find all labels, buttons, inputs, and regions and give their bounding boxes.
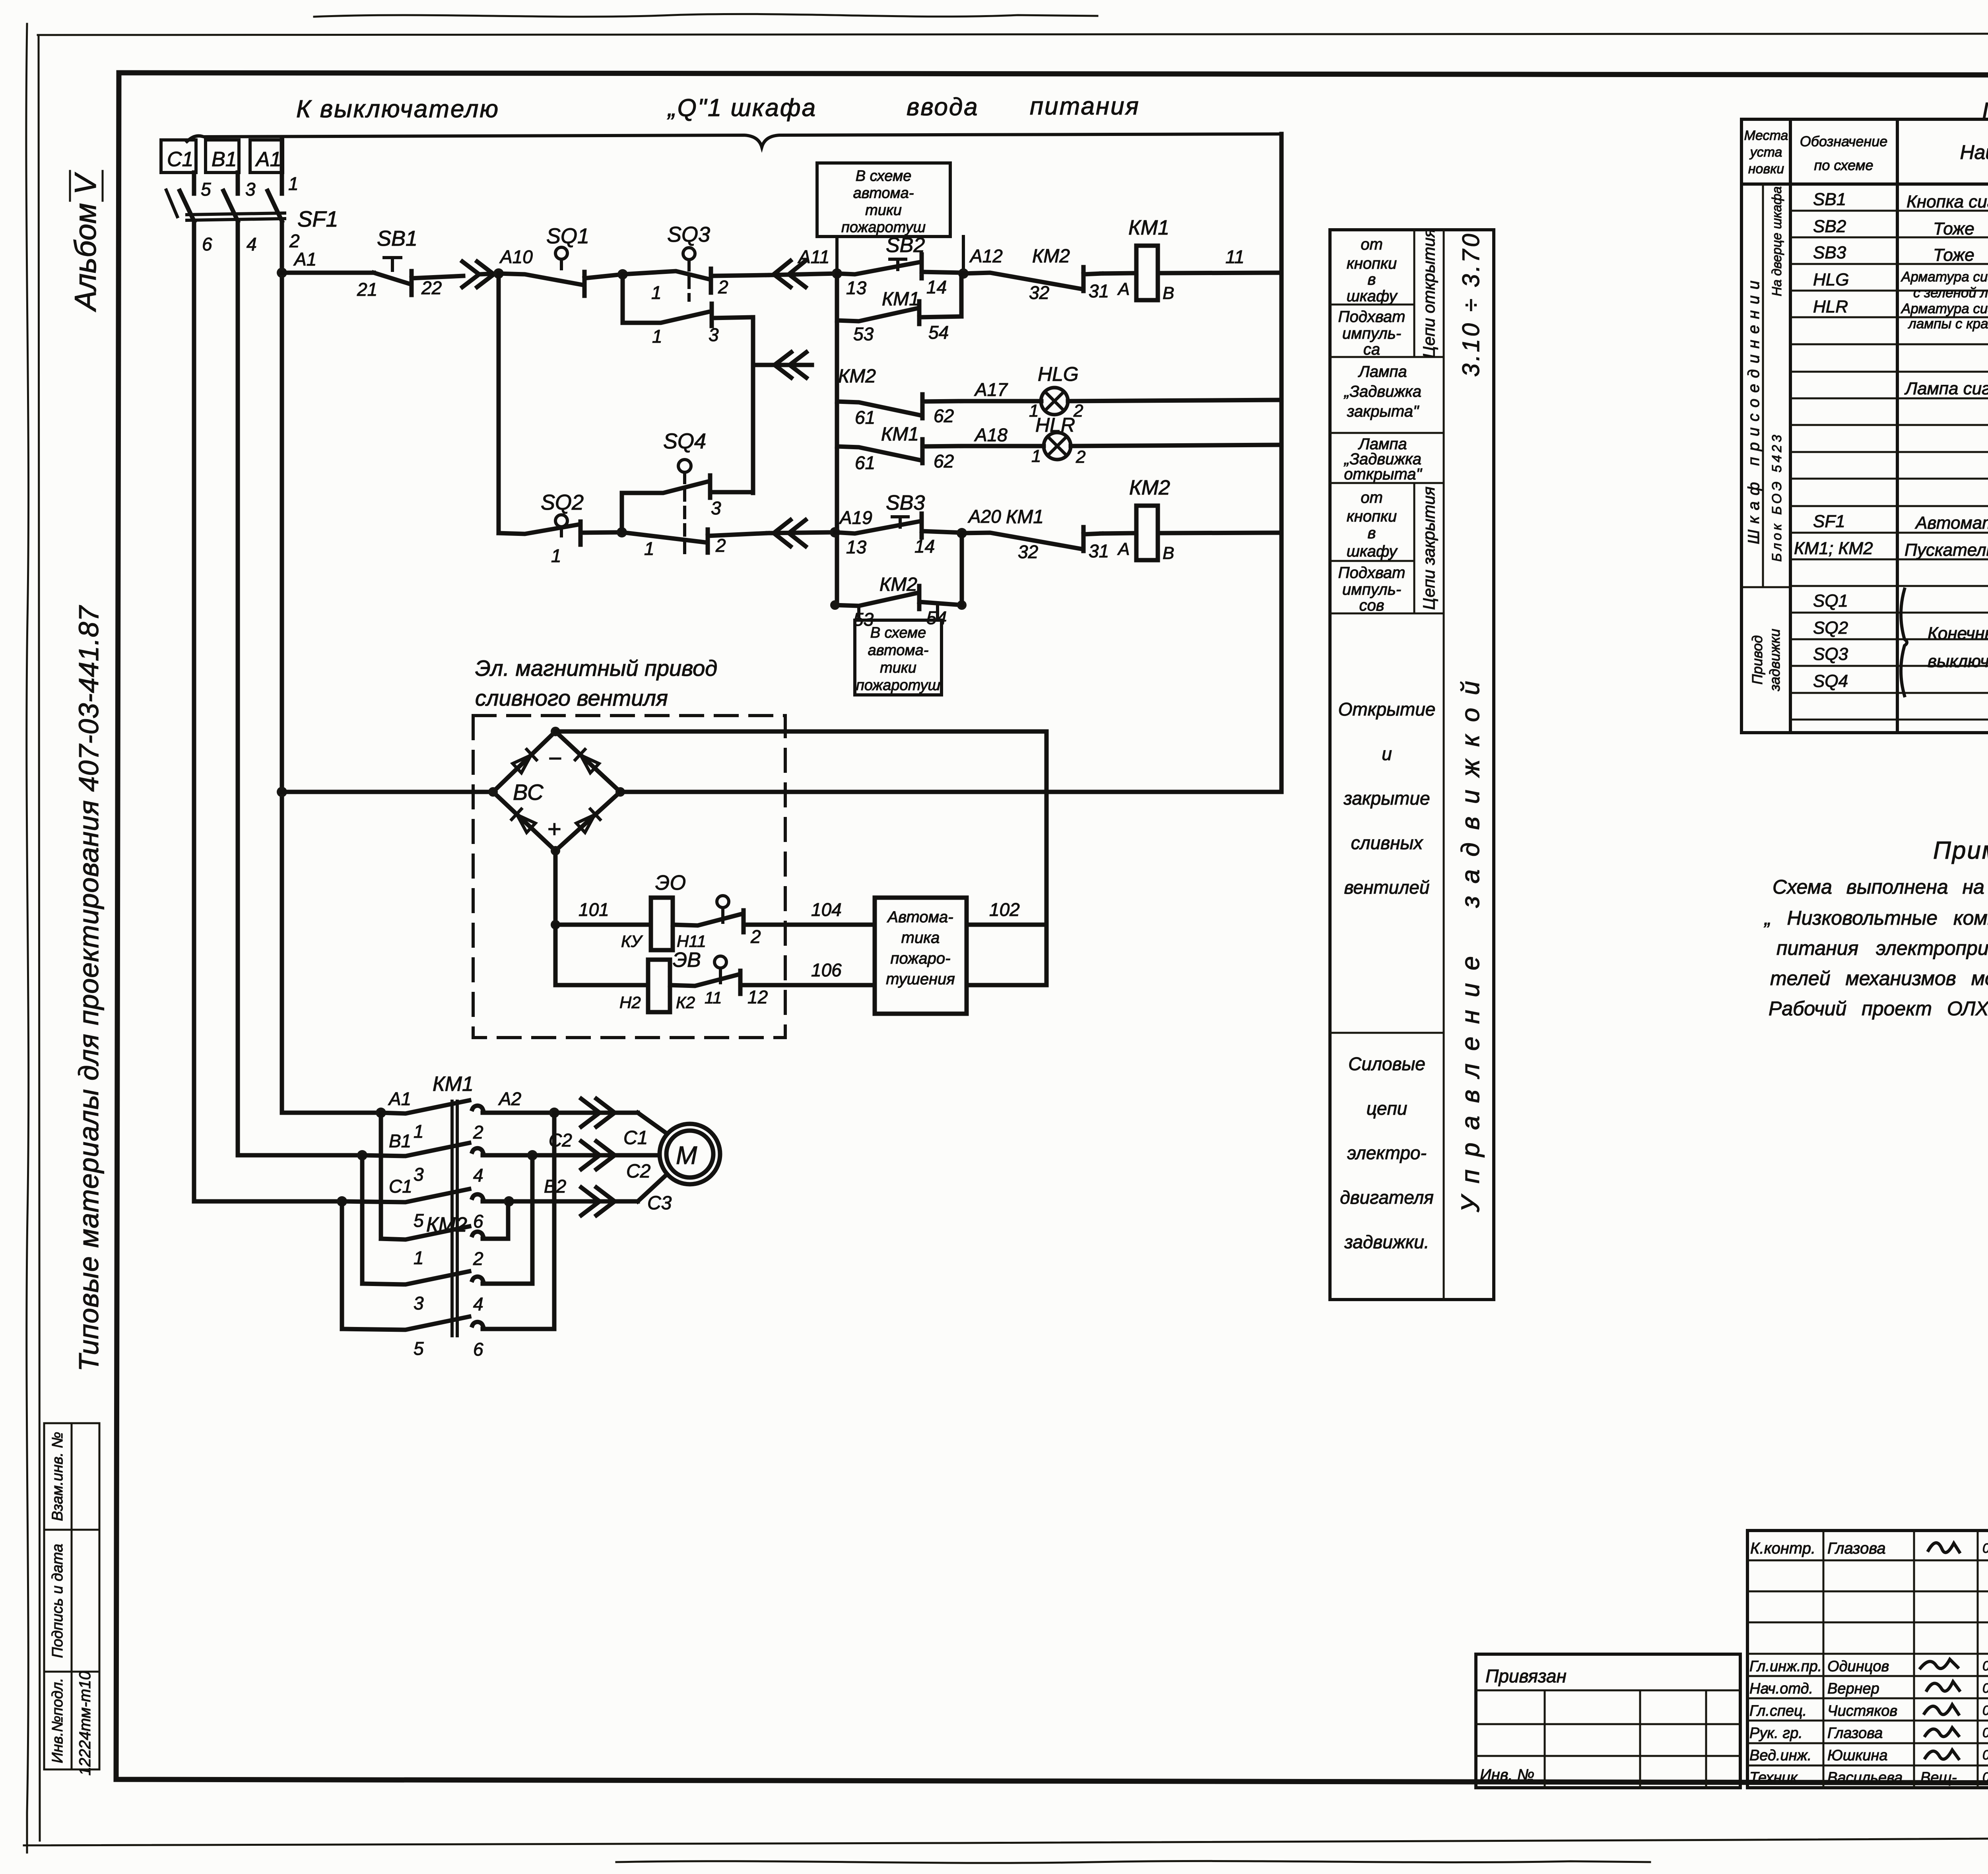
contact KM1 32-31 nc [962, 527, 1101, 551]
svg-text:Примечание.: Примечание. [1933, 837, 1988, 864]
function table vline narrow1 [1413, 230, 1415, 357]
diode bottom-left [512, 809, 536, 833]
svg-text:КМ1: КМ1 [1006, 506, 1044, 528]
svg-text:КМ1; КМ2: КМ1; КМ2 [1794, 539, 1873, 558]
svg-text:импуль-: импуль- [1342, 581, 1401, 598]
svg-text:5: 5 [414, 1338, 424, 1359]
svg-text:6: 6 [202, 234, 212, 254]
svg-text:HLG: HLG [1038, 363, 1079, 385]
svg-text:тика: тика [901, 929, 940, 947]
svg-text:Шкаф присоединении: Шкаф присоединении [1745, 275, 1763, 544]
diode top-right [575, 749, 600, 773]
limit contact close stem [719, 968, 722, 983]
contact drive close [670, 971, 875, 994]
node A19 junction [830, 527, 840, 537]
signature table frame [1747, 1531, 1988, 1788]
motor M outer [660, 1124, 720, 1184]
lamp HLR [1044, 433, 1071, 460]
svg-text:Тоже: Тоже [1933, 245, 1974, 265]
svg-text:53: 53 [853, 324, 874, 344]
limit switch SQ3 plunger head [683, 248, 695, 260]
bus bracket line with brace [187, 134, 1281, 147]
contact SQ1 [499, 272, 623, 296]
connector arrow left rung close [768, 520, 835, 546]
contact SB1 21-22 [374, 271, 463, 295]
node A12 junction [958, 268, 969, 279]
svg-text:от: от [1361, 489, 1383, 506]
sig squiggle vedinzh [1925, 1750, 1959, 1759]
svg-text:4: 4 [473, 1294, 483, 1314]
node B1 terminal box [206, 140, 239, 173]
svg-text:электро-: электро- [1347, 1143, 1427, 1163]
svg-text:телей механизмов мощностью: телей механизмов мощностью до 28 кВт ( Р… [1770, 967, 1988, 989]
sig squiggle kontr [1928, 1543, 1959, 1552]
svg-text:К2: К2 [676, 993, 695, 1012]
svg-text:Силовые: Силовые [1348, 1053, 1425, 1074]
svg-text:ввода: ввода [907, 93, 979, 121]
sig row vedinzh [1749, 1747, 1988, 1764]
wire 102 [967, 923, 1046, 927]
svg-text:04.81: 04.81 [1982, 1703, 1988, 1718]
svg-text:0487: 0487 [1982, 1770, 1988, 1785]
svg-text:с зеленой линзой: с зеленой линзой [1913, 285, 1988, 301]
limit switch SQ4 plunger head [678, 460, 691, 472]
wire bus C1 vertical [192, 221, 196, 1201]
margin stamp row line 2 [44, 1671, 99, 1673]
svg-text:04.87: 04.87 [1982, 1725, 1988, 1740]
svg-text:Конечный: Конечный [1928, 624, 1988, 643]
diode bottom-right [576, 809, 600, 833]
svg-text:104: 104 [811, 899, 842, 920]
row SB3 [1813, 243, 1988, 266]
function table hline r3 [1330, 432, 1444, 434]
motor M inner [666, 1131, 713, 1178]
svg-text:Техник: Техник [1749, 1769, 1798, 1786]
wire bus C1 upper stub [192, 173, 196, 194]
svg-text:SF1: SF1 [1813, 512, 1845, 531]
col1 sub divider [1762, 184, 1764, 587]
wire KM2 row1 right leg [506, 1201, 511, 1239]
svg-text:по схеме: по схеме [1814, 157, 1873, 173]
margin stamp table divider vertical [71, 1423, 73, 1769]
sig squiggle rukgr [1925, 1728, 1959, 1736]
wire row A to motor [638, 1113, 667, 1134]
node SQ4 junction [617, 527, 627, 537]
svg-text:автома-: автома- [853, 185, 914, 202]
contact KM1 53-54 [837, 301, 961, 324]
contact KM1 main 1-2 [381, 1100, 554, 1114]
svg-text:Обозначение: Обозначение [1800, 133, 1888, 149]
svg-text:КМ2: КМ2 [879, 574, 917, 595]
svg-text:А17: А17 [974, 379, 1008, 400]
function table hline r2 [1330, 356, 1444, 358]
cell text lamp open r4 [1343, 435, 1423, 483]
wire KM2 row2 left leg [360, 1155, 365, 1284]
ruled rows [1790, 211, 1988, 720]
svg-text:SQ2: SQ2 [1813, 618, 1848, 638]
svg-text:в: в [1368, 524, 1376, 542]
svg-text:Автома-: Автома- [887, 908, 953, 926]
node row B right [527, 1150, 538, 1160]
svg-text:Арматура сигнальной: Арматура сигнальной [1901, 301, 1988, 316]
function table vline narrow2 [1413, 483, 1415, 613]
coil EO [651, 898, 673, 950]
svg-text:задвижки: задвижки [1767, 629, 1783, 692]
svg-text:тики: тики [880, 660, 916, 676]
svg-text:Тоже: Тоже [1933, 219, 1974, 239]
breaker SF1 pole C [180, 191, 194, 221]
contact SQ3 1-2 [623, 269, 767, 293]
svg-text:Открытие: Открытие [1338, 699, 1436, 720]
svg-text:31: 31 [1089, 541, 1109, 561]
connector stub arrow left [753, 352, 812, 378]
svg-text:Вещ-: Вещ- [1920, 1769, 1957, 1786]
svg-text:Н11: Н11 [677, 932, 706, 951]
arrow row B [532, 1141, 660, 1169]
limit contact open stem [721, 908, 724, 922]
node bridge bottom [551, 846, 560, 856]
svg-text:Лампа: Лампа [1357, 363, 1407, 380]
cell text lamp closed r3 [1343, 363, 1421, 420]
outer page border left [39, 35, 40, 1841]
svg-text:Глазова: Глазова [1827, 1725, 1883, 1742]
pinned row line1 [1476, 1690, 1740, 1692]
svg-text:пожаротуш: пожаротуш [856, 677, 940, 694]
svg-text:С1: С1 [167, 148, 193, 171]
breaker SF1 link bar [187, 213, 285, 215]
svg-text:SF1: SF1 [297, 206, 338, 231]
svg-text:11: 11 [705, 988, 722, 1007]
svg-text:Пускатель магнитный: Пускатель магнитный [1905, 540, 1988, 560]
contact SB2 13-14 [837, 254, 963, 278]
sig col line 1 [1823, 1531, 1825, 1788]
breaker SF1 handle stub [166, 190, 177, 217]
svg-text:К.контр.: К.контр. [1750, 1540, 1815, 1557]
svg-text:В: В [1163, 543, 1174, 563]
wire bus A1 upper stub [280, 140, 284, 194]
svg-text:SB2: SB2 [1813, 217, 1846, 236]
wire KM2 row3 right leg [552, 1113, 557, 1329]
node A11 junction [832, 268, 842, 279]
svg-text:На дверце шкафа: На дверце шкафа [1769, 186, 1784, 296]
svg-text:04.87: 04.87 [1982, 1748, 1988, 1763]
wire bus to bridge [282, 790, 493, 794]
svg-text:вентилей: вентилей [1344, 877, 1430, 898]
sig row tehnik [1749, 1769, 1988, 1786]
node row A right [549, 1108, 559, 1118]
svg-text:106: 106 [811, 960, 842, 980]
svg-text:от: от [1361, 236, 1383, 253]
svg-text:62: 62 [934, 451, 954, 471]
svg-text:С2: С2 [626, 1161, 650, 1182]
lamp HLG [1041, 388, 1068, 415]
svg-text:5: 5 [201, 179, 211, 200]
svg-text:сливных: сливных [1351, 832, 1424, 853]
svg-text:6: 6 [473, 1339, 483, 1360]
breaker SF1 pole B [223, 191, 238, 221]
sig squiggle nachotd [1927, 1682, 1959, 1691]
svg-text:1: 1 [652, 326, 662, 347]
svg-text:SQ2: SQ2 [541, 491, 584, 514]
margin stamp table frame [44, 1423, 99, 1769]
svg-text:Рабочий проект ОЛХ. 084. 215: Рабочий проект ОЛХ. 084. 215 - том Ⅲ. [1769, 997, 1988, 1020]
svg-text:закрыта": закрыта" [1347, 403, 1419, 420]
pinned col line1 [1544, 1690, 1546, 1788]
svg-text:А18: А18 [974, 425, 1008, 445]
svg-text:14: 14 [914, 536, 935, 557]
wire row C from bus [194, 1199, 342, 1204]
svg-text:тушения: тушения [886, 970, 955, 988]
svg-text:12: 12 [747, 987, 768, 1007]
coil KM1 [1136, 246, 1158, 300]
wire right bus vertical [1279, 134, 1284, 792]
sig col line 2 [1913, 1531, 1915, 1788]
connector arrow right [462, 262, 499, 287]
svg-text:1: 1 [551, 545, 561, 566]
svg-text:шкафу: шкафу [1347, 543, 1398, 560]
node A10 junction [493, 268, 504, 279]
svg-text:4: 4 [247, 234, 257, 254]
outer page border top [38, 33, 1988, 35]
svg-text:Инв.№подл.: Инв.№подл. [49, 1678, 66, 1763]
function table hline r1 [1330, 304, 1414, 306]
svg-text:1: 1 [414, 1121, 424, 1142]
svg-text:Нач.отд.: Нач.отд. [1749, 1680, 1813, 1697]
limit switch SQ2 plunger [560, 527, 563, 536]
svg-text:101: 101 [579, 899, 609, 920]
svg-text:„Q"1 шкафа: „Q"1 шкафа [667, 94, 817, 122]
svg-text:сов: сов [1359, 597, 1384, 614]
svg-text:ВС: ВС [513, 780, 544, 805]
dashed enclosure [473, 716, 785, 1038]
function table hline r5 [1330, 560, 1414, 562]
remote box2 leg left [857, 606, 860, 620]
limit contact close plunger [714, 956, 726, 968]
svg-text:3.10 ÷ 3.70: 3.10 ÷ 3.70 [1458, 231, 1484, 377]
sig row glinzh [1749, 1658, 1988, 1675]
svg-text:КМ2: КМ2 [1129, 476, 1170, 499]
button SB3 actuator [892, 517, 908, 527]
svg-text:3: 3 [245, 179, 256, 200]
wire bus B1 upper stub [236, 173, 240, 194]
svg-text:А10: А10 [499, 246, 533, 267]
svg-text:1: 1 [1031, 446, 1041, 466]
svg-text:кнопки: кнопки [1347, 508, 1397, 525]
svg-text:открыта": открыта" [1344, 466, 1422, 483]
col line naimen [1896, 119, 1899, 733]
row SF1 [1813, 512, 1988, 536]
svg-text:61: 61 [855, 452, 875, 473]
outer page border bottom [24, 1836, 1988, 1845]
svg-text:3: 3 [414, 1164, 424, 1185]
svg-text:Блок БОЭ 5423: Блок БОЭ 5423 [1769, 432, 1784, 562]
margin stamp row line 1 [44, 1529, 99, 1531]
contact KM2 main 3-4 [362, 1271, 532, 1284]
row KM1 KM2 [1794, 539, 1988, 563]
contact KM1 main 3-4 [362, 1143, 532, 1156]
svg-text:2: 2 [473, 1122, 483, 1143]
row HLG [1813, 269, 1988, 306]
function table hline r4 [1330, 482, 1444, 484]
svg-text:04.87: 04.87 [1982, 1681, 1988, 1696]
svg-text:13: 13 [846, 277, 867, 298]
wire bus B1 vertical [236, 221, 240, 1155]
contact KM2 32-31 [963, 267, 1101, 291]
arrow row C [509, 1187, 638, 1215]
wire coil KM2 to bus [1158, 533, 1281, 533]
svg-text:SB3: SB3 [1813, 243, 1846, 262]
breaker SF1 link bar 2 [187, 219, 285, 220]
svg-text:5: 5 [414, 1210, 424, 1231]
wire left of coil [1101, 273, 1136, 274]
svg-text:А19: А19 [839, 507, 872, 528]
svg-text:са: са [1363, 341, 1380, 358]
wire row B from bus [238, 1153, 362, 1158]
svg-text:пожаротуш: пожаротуш [841, 219, 926, 236]
svg-text:КМ1: КМ1 [433, 1073, 474, 1096]
svg-text:54: 54 [928, 322, 949, 343]
svg-text:сливного вентиля: сливного вентиля [475, 685, 668, 710]
svg-text:М: М [676, 1141, 697, 1170]
svg-text:102: 102 [989, 899, 1020, 920]
contact KM2 main 5-6 [342, 1317, 554, 1330]
wire box left leg [835, 237, 839, 273]
svg-text:Арматура сигнальной лампы: Арматура сигнальной лампы [1901, 269, 1988, 285]
pinned table frame [1476, 1654, 1740, 1788]
wire row A from bus [282, 1111, 381, 1115]
cell text power circuits [1340, 1053, 1434, 1252]
cell text podhvat r2 [1338, 308, 1406, 358]
wire rung open left [282, 271, 374, 275]
svg-text:31: 31 [1089, 281, 1109, 301]
album numeral overbar [69, 171, 71, 201]
svg-text:КМ1: КМ1 [881, 424, 919, 445]
svg-text:питания: питания [1030, 93, 1140, 120]
svg-text:В схеме: В схеме [856, 168, 912, 184]
svg-text:„Задвижка: „Задвижка [1343, 383, 1421, 400]
svg-text:задвижки.: задвижки. [1344, 1232, 1429, 1252]
contact SQ2 [499, 522, 622, 545]
equipment table frame [1741, 119, 1988, 733]
wire bridge right to bus corner [620, 790, 1281, 794]
svg-text:А1: А1 [293, 249, 316, 270]
node A20 junction [957, 528, 967, 538]
svg-text:А12: А12 [969, 246, 1003, 266]
svg-text:К выключателю: К выключателю [296, 95, 499, 123]
wire HLR to bus [1071, 445, 1281, 446]
svg-text:21: 21 [357, 279, 377, 300]
wire A10 drop [497, 274, 501, 533]
wire to lamp HLR [962, 444, 1044, 448]
svg-text:62: 62 [934, 405, 954, 426]
svg-text:3: 3 [711, 498, 721, 518]
svg-text:12224тм-т10: 12224тм-т10 [76, 1671, 94, 1776]
svg-text:SB1: SB1 [1813, 190, 1846, 209]
svg-text:Схема выполнена на основани: Схема выполнена на основании типового ма… [1773, 876, 1988, 898]
svg-text:ЭО: ЭО [655, 871, 686, 894]
pinned col line3 [1705, 1690, 1707, 1788]
svg-text:SQ3: SQ3 [1813, 644, 1848, 664]
svg-text:А: А [1117, 539, 1130, 559]
svg-text:−: − [548, 745, 562, 772]
svg-text:Взам.инв. №: Взам.инв. № [49, 1432, 66, 1521]
svg-text:автома-: автома- [868, 642, 929, 659]
contact SB3 13-14 [835, 514, 962, 537]
svg-text:1: 1 [414, 1247, 424, 1268]
button SB2 actuator [890, 259, 906, 270]
rectifier VS diamond [493, 731, 620, 851]
svg-text:кнопки: кнопки [1347, 255, 1397, 272]
cell text podhvat r6 [1338, 564, 1406, 614]
svg-text:Цепи закрытия: Цепи закрытия [1419, 487, 1438, 610]
svg-text:Цепи открытия: Цепи открытия [1419, 229, 1438, 358]
svg-text:Чистяков: Чистяков [1827, 1703, 1897, 1719]
svg-text:Типовые материалы для проек: Типовые материалы для проектирования 407… [73, 605, 104, 1372]
svg-text:двигателя: двигателя [1340, 1187, 1434, 1208]
row SB2 [1813, 217, 1988, 240]
sig squiggle glspec [1924, 1705, 1959, 1715]
svg-text:новки: новки [1748, 161, 1784, 177]
svg-text:А1: А1 [388, 1088, 411, 1109]
limit switch SQ1 plunger head [555, 247, 567, 259]
svg-text:С1: С1 [623, 1127, 648, 1148]
svg-text:уста: уста [1749, 145, 1782, 160]
contact SQ4 1-2 [622, 530, 768, 553]
node km2 bypass left [830, 600, 840, 610]
header bottom line [1741, 182, 1988, 186]
svg-text:Альбом V: Альбом V [69, 172, 103, 312]
node bridge feed junction [277, 787, 287, 797]
svg-text:14: 14 [926, 277, 947, 297]
svg-text:Гл.инж.пр.: Гл.инж.пр. [1749, 1658, 1822, 1675]
svg-text:11: 11 [1225, 246, 1244, 267]
svg-text:22: 22 [421, 277, 442, 298]
svg-text:Наименование: Наименование [1960, 141, 1988, 163]
svg-text:В схеме: В схеме [870, 625, 926, 641]
svg-text:SQ3: SQ3 [667, 223, 710, 246]
svg-text:„ Низковольтные комплектные: „ Низковольтные комплектные устройства д… [1764, 907, 1988, 929]
node km2 bypass right [957, 600, 967, 610]
node 101 junction [551, 920, 560, 929]
wire KM2 row1 left leg [379, 1113, 383, 1239]
svg-text:цепи: цепи [1367, 1098, 1408, 1119]
row lamp signal [1904, 379, 1988, 400]
album numeral underbar [102, 171, 104, 201]
rotated privod zadvizhki [1749, 629, 1783, 692]
sig squiggle glinzh [1920, 1659, 1958, 1668]
torn paper edge top [314, 14, 1097, 17]
svg-text:04.87: 04.87 [1982, 1541, 1988, 1556]
svg-text:4: 4 [473, 1165, 483, 1185]
svg-text:Привязан: Привязан [1485, 1666, 1567, 1686]
wire box right leg [962, 237, 965, 273]
svg-text:Места: Места [1744, 128, 1788, 143]
node bridge right [615, 787, 625, 797]
wire 106 right [967, 925, 1046, 985]
svg-text:в: в [1368, 271, 1376, 288]
wire 101 [555, 923, 651, 927]
wire HLG to bus [1068, 400, 1281, 401]
svg-text:2: 2 [289, 231, 300, 251]
svg-text:КМ1: КМ1 [1128, 216, 1169, 239]
svg-text:КМ2: КМ2 [838, 366, 876, 387]
wire lamp feeder vertical [835, 274, 839, 605]
remote box fire automation bottom [855, 620, 942, 695]
contact SQ3 1-3 bypass [623, 304, 753, 326]
wire KM2 row3 left leg [340, 1201, 344, 1329]
node row C left [337, 1196, 347, 1207]
wire left of coil KM2 [1101, 533, 1136, 533]
